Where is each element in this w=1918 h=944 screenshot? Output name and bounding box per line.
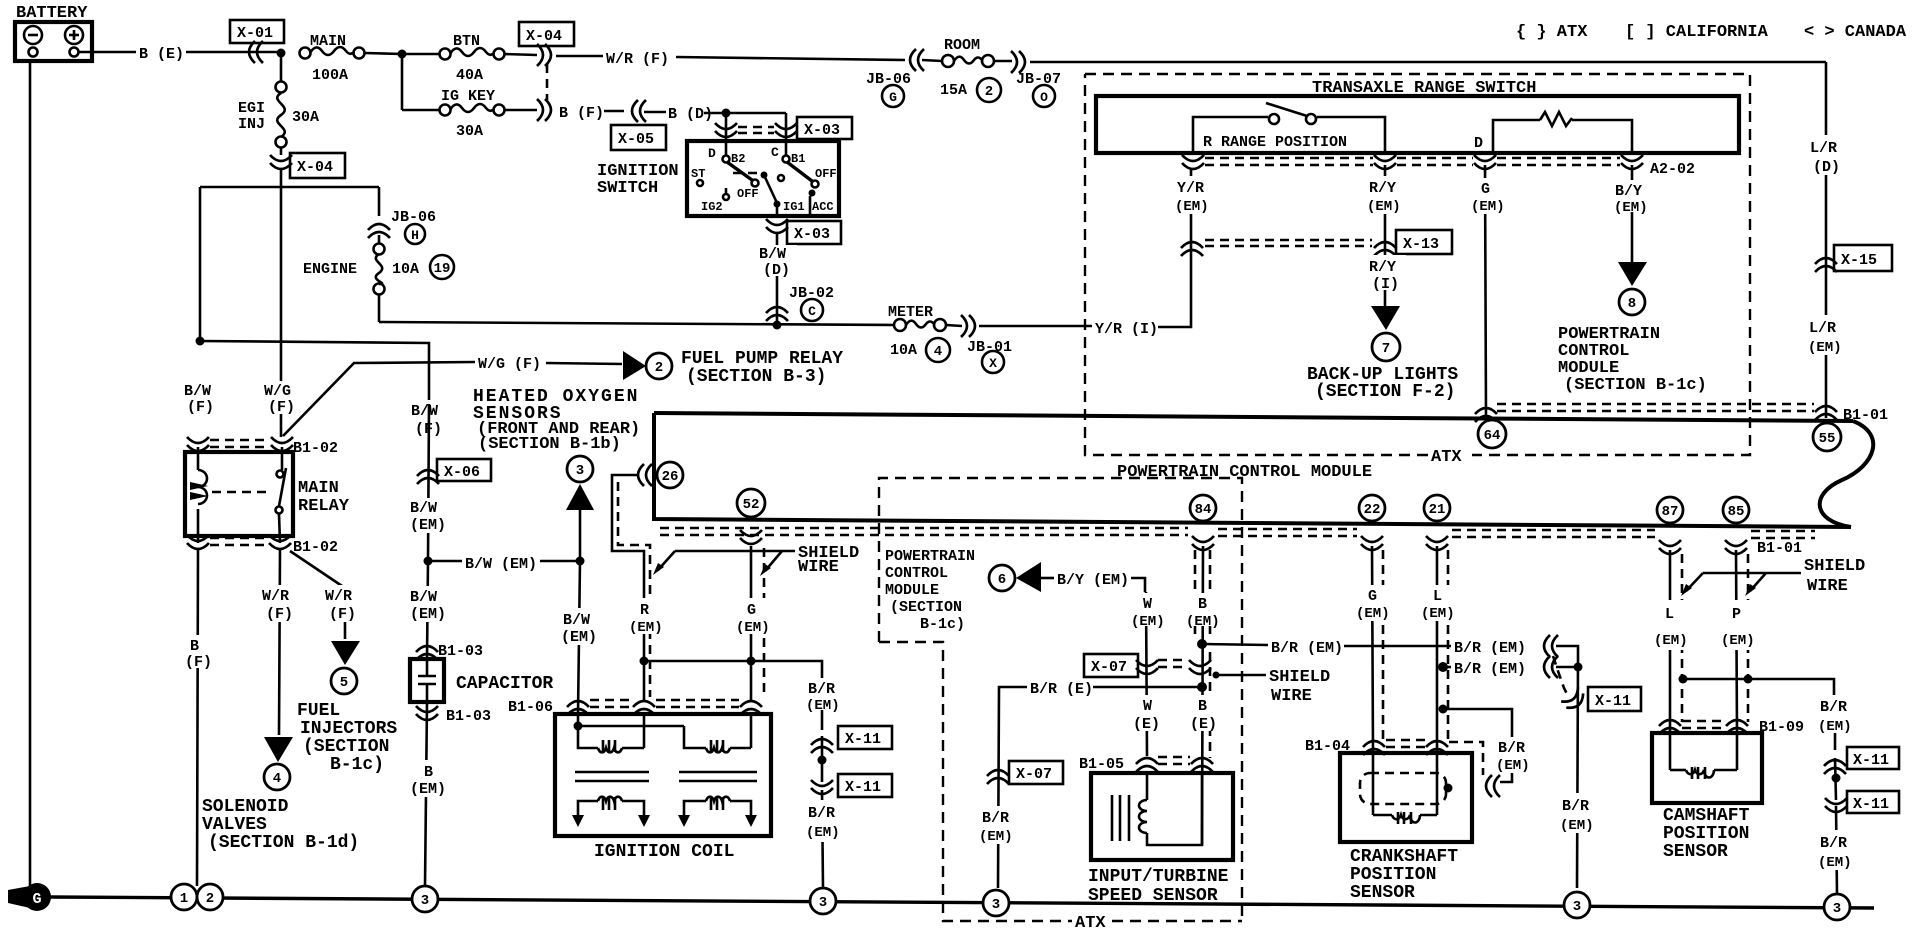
wire main vertical down from X-04 xyxy=(280,170,283,437)
svg-text:(D): (D) xyxy=(1813,159,1840,176)
svg-text:B2: B2 xyxy=(731,152,745,166)
connector JB-02 (C) xyxy=(766,285,834,321)
ground symbol G xyxy=(8,883,51,911)
svg-text:(EM): (EM) xyxy=(1560,818,1594,834)
ground bus wire xyxy=(48,897,1874,908)
powertrain control module label (right) xyxy=(1558,325,1707,395)
svg-text:ENGINE: ENGINE xyxy=(303,261,357,278)
ground node 2 xyxy=(197,884,223,910)
svg-text:B/R: B/R xyxy=(982,810,1009,827)
svg-text:3: 3 xyxy=(1573,899,1581,915)
svg-text:B1-03: B1-03 xyxy=(446,708,491,725)
transaxle range switch box xyxy=(1096,96,1739,153)
svg-text:R RANGE POSITION: R RANGE POSITION xyxy=(1203,134,1347,151)
svg-text:B/Y: B/Y xyxy=(1615,183,1642,200)
fuse ENGINE 10A (19) xyxy=(303,235,454,322)
svg-text:10A: 10A xyxy=(392,261,419,278)
svg-text:6: 6 xyxy=(998,572,1006,588)
pin 64 xyxy=(1478,420,1506,448)
connector B1-03 (bottom) xyxy=(416,706,491,725)
svg-text:W/R: W/R xyxy=(262,588,289,605)
wire G (EM) xyxy=(1470,165,1510,422)
dashed harness below PCM line2 xyxy=(660,528,1815,557)
svg-text:(EM): (EM) xyxy=(1496,758,1530,774)
pin 22 xyxy=(1359,495,1385,550)
svg-text:SHIELD: SHIELD xyxy=(1804,557,1865,576)
svg-text:B/Y (EM): B/Y (EM) xyxy=(1057,572,1129,589)
fuel injectors label xyxy=(297,701,397,775)
wire to right corner xyxy=(1030,61,1826,64)
pin 87 xyxy=(1657,497,1683,554)
ignition switch label xyxy=(597,162,679,198)
svg-text:B/R: B/R xyxy=(1498,740,1525,757)
shield wire callout (center) xyxy=(1213,668,1331,706)
svg-text:CAPACITOR: CAPACITOR xyxy=(456,674,553,694)
svg-text:G: G xyxy=(32,891,41,908)
wire diagonal to fuel pump relay line xyxy=(283,362,475,436)
node R/G tie to B/R xyxy=(640,657,649,666)
svg-text:X-04: X-04 xyxy=(526,28,562,45)
wire B (EM) to ground xyxy=(408,702,448,886)
wire B/R (E) xyxy=(998,681,1202,888)
svg-text:B/R (EM): B/R (EM) xyxy=(1454,661,1526,678)
svg-text:(EM): (EM) xyxy=(629,620,663,636)
svg-text:X-11: X-11 xyxy=(1853,796,1889,813)
svg-text:ACC: ACC xyxy=(812,200,834,214)
ground node 3a xyxy=(412,886,438,912)
node meter junction xyxy=(773,321,782,330)
connector JB-07 (O) xyxy=(994,51,1061,107)
svg-text:RELAY: RELAY xyxy=(298,497,350,516)
input/turbine speed sensor internals xyxy=(1112,773,1202,845)
svg-text:B (E): B (E) xyxy=(139,46,184,63)
main relay box xyxy=(185,452,293,536)
svg-text:ST: ST xyxy=(691,167,705,181)
wire B/R (EM) link #2 xyxy=(1438,656,1583,678)
connector B1-09 xyxy=(1659,719,1804,736)
svg-text:22: 22 xyxy=(1364,502,1381,518)
svg-text:B1-09: B1-09 xyxy=(1759,719,1804,736)
svg-text:B/W: B/W xyxy=(410,500,437,517)
svg-text:B1-02: B1-02 xyxy=(293,539,338,556)
wire P (EM) from pin 85 xyxy=(1719,550,1759,733)
connector JB-06 (H) xyxy=(368,209,436,244)
connector X-07 (second) xyxy=(978,761,1063,845)
svg-text:MAIN: MAIN xyxy=(298,479,339,498)
svg-text:52: 52 xyxy=(743,497,760,513)
svg-text:3: 3 xyxy=(992,897,1000,913)
svg-text:(EM): (EM) xyxy=(1721,633,1755,649)
connector X-04 (second) xyxy=(270,153,345,178)
svg-text:(SECTION B-1d): (SECTION B-1d) xyxy=(208,833,359,853)
svg-text:IG2: IG2 xyxy=(701,200,723,214)
wire Y/R (I) xyxy=(979,168,1191,338)
wire B/W (D) xyxy=(757,234,797,325)
ignition switch internals xyxy=(691,141,837,216)
svg-text:POSITION: POSITION xyxy=(1663,824,1749,844)
svg-text:B: B xyxy=(190,638,199,655)
svg-text:(EM): (EM) xyxy=(561,629,597,646)
svg-text:FUEL PUMP RELAY: FUEL PUMP RELAY xyxy=(681,349,843,369)
svg-text:ROOM: ROOM xyxy=(944,37,980,54)
R range position switch xyxy=(1193,103,1385,153)
svg-text:(EM): (EM) xyxy=(1367,199,1401,215)
heated oxygen sensors note xyxy=(473,387,640,454)
svg-text:X-11: X-11 xyxy=(1595,693,1631,710)
svg-text:B1: B1 xyxy=(791,152,805,166)
fuse EGI INJ 30A (vertical) xyxy=(238,53,319,155)
wire B/W (EM) horizontal link xyxy=(428,551,580,573)
wire W/R (F) #2 diagonal to fuel injectors xyxy=(290,551,364,639)
wire B/R (EM) from coil wires xyxy=(644,661,822,730)
svg-text:(EM): (EM) xyxy=(979,829,1013,845)
wire W/R (F) to solenoid valves xyxy=(259,550,301,735)
wire L/R (D) right edge xyxy=(1805,62,1849,418)
svg-text:O: O xyxy=(1040,90,1048,105)
fuse BTN 40A xyxy=(402,33,537,84)
svg-text:B/R: B/R xyxy=(808,681,835,698)
svg-text:W/G: W/G xyxy=(264,383,291,400)
powertrain control module label (left) xyxy=(885,548,975,633)
svg-text:21: 21 xyxy=(1429,502,1446,518)
svg-text:(F): (F) xyxy=(185,654,212,671)
pin 21 xyxy=(1424,495,1450,550)
wire B/W (F) xyxy=(408,400,450,438)
shield wire callout (right) xyxy=(1681,557,1865,596)
connector X-04 (top) xyxy=(519,22,574,100)
svg-text:X-06: X-06 xyxy=(444,464,480,481)
wire B/R (EM) down right of crankshaft xyxy=(1558,660,1600,888)
svg-text:(EM): (EM) xyxy=(410,781,446,798)
connector X-05 xyxy=(611,100,666,150)
svg-text:SHIELD: SHIELD xyxy=(1269,668,1330,687)
input/turbine speed sensor label xyxy=(1088,867,1229,906)
connector B1-03 (top) xyxy=(416,643,483,660)
svg-text:A2-02: A2-02 xyxy=(1650,161,1695,178)
svg-text:(F): (F) xyxy=(268,399,295,416)
svg-text:(EM): (EM) xyxy=(1175,199,1209,215)
svg-text:< > CANADA: < > CANADA xyxy=(1804,23,1907,42)
svg-text:CAMSHAFT: CAMSHAFT xyxy=(1663,806,1750,826)
svg-text:CRANKSHAFT: CRANKSHAFT xyxy=(1350,847,1458,867)
svg-text:(I): (I) xyxy=(1372,276,1399,293)
svg-text:METER: METER xyxy=(888,304,933,321)
crankshaft sensor internals xyxy=(1360,753,1453,824)
svg-text:D: D xyxy=(1474,135,1483,152)
svg-text:8: 8 xyxy=(1628,296,1636,312)
svg-text:B/W: B/W xyxy=(410,589,437,606)
svg-text:30A: 30A xyxy=(292,109,319,126)
input/turbine speed sensor box xyxy=(1091,773,1233,860)
wire W/R (F) xyxy=(556,51,905,68)
svg-text:G: G xyxy=(747,602,756,619)
svg-text:(E): (E) xyxy=(1133,716,1160,733)
svg-text:84: 84 xyxy=(1195,502,1212,518)
svg-text:FUEL: FUEL xyxy=(297,701,340,721)
capacitor C1 xyxy=(410,659,553,702)
connector B1-06 xyxy=(508,699,762,716)
svg-text:19: 19 xyxy=(434,261,451,277)
svg-text:[ ] CALIFORNIA: [ ] CALIFORNIA xyxy=(1625,23,1769,42)
connector B1-02 (top) xyxy=(187,437,338,457)
connector forks below switch xyxy=(1182,155,1695,178)
svg-text:26: 26 xyxy=(662,469,679,485)
connector B1-05 xyxy=(1079,756,1213,773)
shield wire callout (left) xyxy=(653,544,859,577)
svg-text:G: G xyxy=(1368,588,1377,605)
svg-text:P: P xyxy=(1732,606,1741,623)
svg-text:L: L xyxy=(1665,606,1674,623)
connector X-03 (top) xyxy=(715,117,852,139)
svg-text:X-07: X-07 xyxy=(1091,659,1127,676)
svg-text:40A: 40A xyxy=(456,67,483,84)
svg-text:3: 3 xyxy=(576,463,584,479)
ground node 3b xyxy=(810,888,836,914)
svg-text:B1-05: B1-05 xyxy=(1079,756,1124,773)
connector X-07 xyxy=(1084,654,1211,677)
svg-text:B/W: B/W xyxy=(759,246,786,263)
svg-text:R/Y: R/Y xyxy=(1369,180,1396,197)
svg-text:G: G xyxy=(889,90,897,105)
svg-text:OFF: OFF xyxy=(815,167,837,181)
svg-text:B: B xyxy=(1198,596,1207,613)
solenoid valves label xyxy=(202,797,359,853)
svg-text:(EM): (EM) xyxy=(1421,606,1455,622)
connector X-11 (shield drain) xyxy=(1553,656,1641,712)
svg-text:B: B xyxy=(1198,698,1207,715)
svg-text:(SECTION B-1b): (SECTION B-1b) xyxy=(478,435,621,454)
svg-text:(EM): (EM) xyxy=(806,698,840,714)
svg-text:B (D): B (D) xyxy=(668,106,713,123)
wire G (EM) from pin 22 xyxy=(1354,546,1394,753)
svg-text:B/R (EM): B/R (EM) xyxy=(1454,640,1526,657)
svg-text:X-01: X-01 xyxy=(237,25,273,42)
svg-text:POWERTRAIN: POWERTRAIN xyxy=(885,548,975,565)
fuse ROOM 15A xyxy=(922,37,1001,102)
svg-text:L: L xyxy=(1433,588,1442,605)
wire B (F) xyxy=(559,105,624,122)
svg-text:INJ: INJ xyxy=(238,116,265,133)
svg-text:WIRE: WIRE xyxy=(798,558,839,577)
wire B/W (EM) down to capacitor xyxy=(407,561,451,659)
connector B1-04 xyxy=(1305,738,1483,775)
battery xyxy=(15,4,92,61)
svg-text:ATX: ATX xyxy=(1431,448,1462,467)
battery ground wire xyxy=(29,61,32,886)
svg-text:IGNITION COIL: IGNITION COIL xyxy=(594,842,734,862)
svg-text:3: 3 xyxy=(819,895,827,911)
pin 55 xyxy=(1813,423,1841,451)
svg-text:W/G (F): W/G (F) xyxy=(478,356,541,373)
svg-text:(EM): (EM) xyxy=(806,825,840,841)
wire B/R (EM) link #1 xyxy=(1202,635,1578,660)
pin 85 xyxy=(1723,497,1749,554)
connector X-15 xyxy=(1815,245,1892,272)
svg-text:(SECTION: (SECTION xyxy=(303,737,389,757)
ground node 3c xyxy=(983,890,1009,916)
connector X-03 (bottom) xyxy=(766,219,841,244)
svg-text:(EM): (EM) xyxy=(410,517,446,534)
wire W (EM) xyxy=(1128,592,1168,756)
node: junction battery feed xyxy=(277,49,286,58)
svg-text:55: 55 xyxy=(1819,431,1836,447)
node B wire junction to B/R (EM) xyxy=(1197,639,1207,649)
svg-text:B/R (EM): B/R (EM) xyxy=(1271,640,1343,657)
wire B/R (EM) camshaft ground with X-11s xyxy=(1815,695,1899,894)
pin 26 xyxy=(638,462,683,488)
svg-text:X-11: X-11 xyxy=(845,779,881,796)
svg-text:(F): (F) xyxy=(187,399,214,416)
svg-text:WIRE: WIRE xyxy=(1271,687,1312,706)
arrow (5) fuel injectors xyxy=(331,641,360,694)
node left junction xyxy=(196,337,205,346)
wire B (D) xyxy=(644,106,786,123)
svg-text:D: D xyxy=(708,146,716,161)
svg-text:X-03: X-03 xyxy=(794,226,830,243)
svg-text:B/R (E): B/R (E) xyxy=(1030,681,1093,698)
svg-text:EGI: EGI xyxy=(238,100,265,117)
ground node 1 xyxy=(171,884,197,910)
svg-text:(EM): (EM) xyxy=(1614,200,1648,216)
svg-text:(EM): (EM) xyxy=(410,606,446,623)
node arrow3 junction xyxy=(576,557,585,566)
svg-text:SENSOR: SENSOR xyxy=(1350,883,1415,903)
svg-text:B/R: B/R xyxy=(1820,699,1847,716)
arrow (4) solenoid valves xyxy=(264,737,293,790)
svg-text:W: W xyxy=(1143,698,1152,715)
wire B/Y (EM) to arrow 8 xyxy=(1612,165,1654,315)
svg-text:(EM): (EM) xyxy=(1471,199,1505,215)
svg-text:7: 7 xyxy=(1382,341,1390,357)
svg-text:B/W: B/W xyxy=(411,403,438,420)
crankshaft position sensor box xyxy=(1340,753,1472,842)
svg-text:2: 2 xyxy=(985,84,993,100)
svg-text:85: 85 xyxy=(1728,504,1745,520)
wire W (E) / B (E) labels xyxy=(1129,695,1222,733)
connector JB-01 (X) xyxy=(946,315,1012,373)
node B/R(E) junction xyxy=(1197,682,1207,692)
svg-text:OFF: OFF xyxy=(737,187,759,201)
svg-text:64: 64 xyxy=(1484,428,1501,444)
svg-text:5: 5 xyxy=(340,675,348,691)
svg-text:(EM): (EM) xyxy=(1808,340,1842,356)
svg-text:CONTROL: CONTROL xyxy=(885,565,948,582)
svg-text:X-03: X-03 xyxy=(804,122,840,139)
svg-text:VALVES: VALVES xyxy=(202,815,267,835)
svg-text:(SECTION B-3): (SECTION B-3) xyxy=(686,367,826,387)
connector JB-06 (G) xyxy=(866,49,924,107)
svg-text:X-11: X-11 xyxy=(845,731,881,748)
crankshaft position sensor label xyxy=(1350,847,1458,903)
svg-text:W/R: W/R xyxy=(325,588,352,605)
svg-text:2: 2 xyxy=(655,360,663,376)
wire W/G (F) to fuel pump relay xyxy=(478,356,622,373)
ignition coil box xyxy=(555,714,771,836)
svg-text:ATX: ATX xyxy=(1075,914,1106,933)
svg-text:INPUT/TURBINE: INPUT/TURBINE xyxy=(1088,867,1229,887)
main relay internals xyxy=(190,447,286,543)
svg-text:SOLENOID: SOLENOID xyxy=(202,797,289,817)
svg-text:B/W: B/W xyxy=(184,383,211,400)
svg-text:SWITCH: SWITCH xyxy=(597,179,658,198)
wire meter feed xyxy=(379,322,893,325)
ignition coil internals xyxy=(572,714,757,827)
pin 84 xyxy=(1190,495,1216,550)
ground node 3e xyxy=(1824,894,1850,920)
svg-text:(EM): (EM) xyxy=(1654,633,1688,649)
svg-text:W/R (F): W/R (F) xyxy=(606,51,669,68)
svg-text:(SECTION F-2): (SECTION F-2) xyxy=(1315,382,1455,402)
wire B/R (EM) with X-11 connectors xyxy=(803,678,892,888)
svg-text:3: 3 xyxy=(1833,901,1841,917)
wire B (EM) from pin 84 xyxy=(1184,546,1224,845)
svg-text:JB-01: JB-01 xyxy=(967,339,1012,356)
svg-text:X-05: X-05 xyxy=(618,131,654,148)
wire Y/R (EM) xyxy=(1172,176,1214,215)
fuel pump relay arrow (2) xyxy=(623,349,843,387)
svg-text:X-13: X-13 xyxy=(1403,236,1439,253)
svg-text:IG1: IG1 xyxy=(783,200,805,214)
wires into ignition switch xyxy=(725,113,728,141)
node: junction MAIN/BTN xyxy=(398,50,407,59)
svg-text:(EM): (EM) xyxy=(736,620,770,636)
svg-text:4: 4 xyxy=(273,771,281,787)
fuse MAIN 100A xyxy=(300,33,403,84)
dashed harness above PCM line1 xyxy=(1497,404,1814,411)
svg-text:(EM): (EM) xyxy=(1818,719,1852,735)
svg-text:H: H xyxy=(411,228,419,243)
node B(D) junction xyxy=(722,109,731,118)
branch to IG KEY row xyxy=(401,54,404,110)
svg-text:C: C xyxy=(808,304,816,319)
svg-text:WIRE: WIRE xyxy=(1807,577,1848,596)
svg-text:(F): (F) xyxy=(329,606,356,623)
svg-text:MODULE: MODULE xyxy=(885,582,939,599)
svg-text:X: X xyxy=(989,356,997,371)
svg-text:(E): (E) xyxy=(1190,716,1217,733)
pin 6 arrow B/Y (EM) xyxy=(989,562,1145,592)
ground node 3d xyxy=(1564,892,1590,918)
wire B/W (EM) xyxy=(407,498,451,534)
svg-text:L/R: L/R xyxy=(1810,140,1837,157)
camshaft position sensor box xyxy=(1652,733,1762,803)
fuse METER 10A (4) xyxy=(888,304,950,362)
connector B1-02 (bottom) xyxy=(187,535,338,556)
camshaft position sensor label xyxy=(1663,806,1750,862)
svg-text:(SECTION B-1c): (SECTION B-1c) xyxy=(1564,376,1707,395)
wire L (EM) from pin 87 xyxy=(1652,550,1692,733)
svg-text:IG KEY: IG KEY xyxy=(441,88,495,105)
svg-text:G: G xyxy=(1481,181,1490,198)
svg-text:3: 3 xyxy=(421,893,429,909)
svg-text:B1-06: B1-06 xyxy=(508,699,553,716)
connector X-13 xyxy=(1181,230,1452,256)
svg-text:(EM): (EM) xyxy=(1186,614,1220,630)
svg-text:(EM): (EM) xyxy=(1131,614,1165,630)
svg-text:B (F): B (F) xyxy=(559,105,604,122)
wire B(F) to ground xyxy=(181,550,217,886)
svg-text:100A: 100A xyxy=(312,67,348,84)
wire B/W (F) labels xyxy=(180,381,303,416)
wire B(E) battery to X-01 xyxy=(79,46,281,63)
camshaft sensor internals xyxy=(1670,733,1737,779)
svg-text:1: 1 xyxy=(180,891,188,907)
svg-text:Y/R: Y/R xyxy=(1177,180,1204,197)
wire horizontal distribution xyxy=(200,186,379,189)
svg-text:POSITION: POSITION xyxy=(1350,865,1436,885)
ignition switch box xyxy=(687,141,839,216)
connector X-06 xyxy=(417,404,491,560)
